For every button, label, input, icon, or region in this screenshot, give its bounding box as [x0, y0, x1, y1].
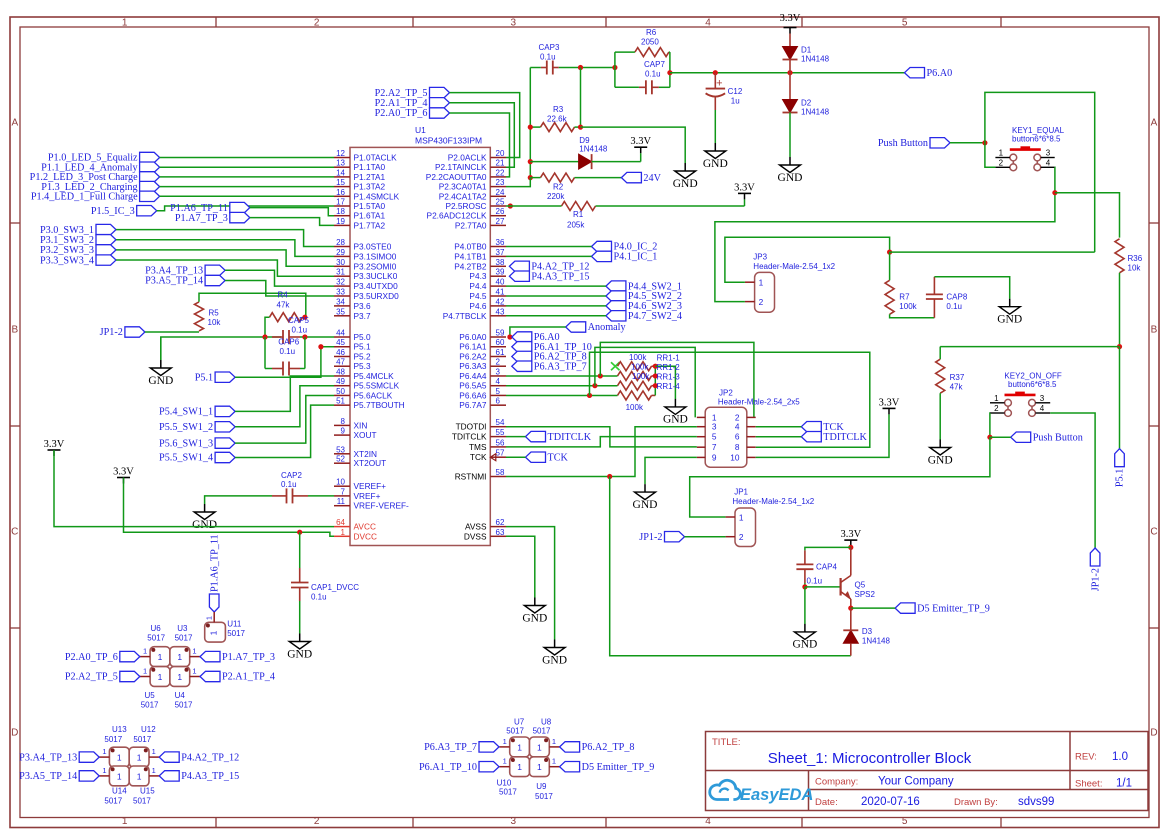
wire D3 to RSTNMI loop	[850, 643, 852, 655]
svg-text:AVSS: AVSS	[465, 522, 487, 532]
ground CAP2	[204, 504, 206, 512]
svg-text:13: 13	[336, 159, 345, 168]
svg-text:41: 41	[496, 288, 505, 297]
svg-text:4: 4	[735, 422, 740, 432]
wire AVSS to GND	[506, 527, 555, 640]
svg-text:57: 57	[496, 449, 505, 458]
wire pin5 riser to JP2.8	[590, 352, 870, 447]
net flag P3.0_SW3_1	[96, 224, 116, 234]
svg-text:3: 3	[1046, 149, 1051, 158]
svg-text:Q5: Q5	[855, 581, 866, 590]
svg-text:2020-07-16: 2020-07-16	[861, 796, 920, 808]
wire JP3.2 net	[715, 193, 1055, 302]
capacitor CAP7	[639, 86, 646, 88]
junction D1/D2	[787, 70, 792, 75]
net flag P5.5_SW1_2	[215, 422, 235, 432]
svg-text:5017: 5017	[175, 633, 193, 642]
svg-text:3.3V: 3.3V	[630, 136, 651, 147]
svg-text:P4.3: P4.3	[469, 271, 486, 281]
wire pin36	[506, 246, 592, 248]
svg-text:3.3V: 3.3V	[113, 467, 134, 478]
svg-text:GND: GND	[192, 519, 217, 531]
svg-text:VEREF+: VEREF+	[354, 481, 387, 491]
svg-text:Company:: Company:	[815, 777, 858, 788]
svg-text:P6.0A0: P6.0A0	[459, 332, 487, 342]
svg-text:P2.5ROSC: P2.5ROSC	[445, 201, 486, 211]
svg-text:P3.2SOMI0: P3.2SOMI0	[354, 261, 397, 271]
junction CAP5 right	[302, 334, 307, 339]
net flag P5.5_SW1_4	[215, 452, 235, 462]
net flag P3.A5_TP_14 (bottom)	[79, 771, 99, 781]
net flag P5.4_SW1_1	[215, 406, 235, 416]
svg-text:D5 Emitter_TP_9: D5 Emitter_TP_9	[917, 603, 990, 614]
junction KEY2.2	[987, 435, 992, 440]
svg-text:RR1-4: RR1-4	[657, 382, 681, 391]
net flag P4.0_IC_2	[592, 241, 612, 251]
wire P5.6_SW1_3 to pin 50	[235, 395, 334, 443]
svg-text:17: 17	[336, 198, 345, 207]
svg-text:28: 28	[336, 238, 345, 247]
svg-text:0.1u: 0.1u	[311, 593, 327, 602]
net flag P5.6_SW1_3	[215, 438, 235, 448]
svg-text:JP2: JP2	[719, 389, 733, 398]
svg-text:63: 63	[496, 528, 505, 537]
junction RR1 right 3	[653, 383, 658, 388]
wire R36 junction to P5.1 flag	[1119, 347, 1121, 449]
svg-text:0.1u: 0.1u	[540, 53, 556, 62]
connector JP3 Header-Male-2.54_1x2	[755, 272, 775, 312]
op-amp U1 MSP430F133IPM body	[350, 147, 490, 545]
wire P1.2_LED_3_Post Charge to pin 14	[160, 176, 334, 178]
svg-text:12: 12	[336, 149, 345, 158]
ground RR1	[674, 399, 676, 407]
svg-text:P3.A5_TP_14: P3.A5_TP_14	[145, 276, 203, 287]
svg-text:P4.4: P4.4	[469, 281, 486, 291]
wire pin4 riser to JP2.1	[595, 347, 695, 417]
wire P3.1_SW3_2 to pin 29	[116, 240, 334, 257]
svg-text:54: 54	[496, 418, 505, 427]
svg-text:P4.0TB0: P4.0TB0	[454, 242, 487, 252]
svg-text:0.1u: 0.1u	[280, 347, 296, 356]
svg-text:TITLE:: TITLE:	[712, 737, 741, 748]
svg-text:U5: U5	[145, 691, 156, 700]
svg-text:64: 64	[336, 518, 345, 527]
wire R5 top	[199, 293, 306, 317]
net flag P4.1_IC_1	[592, 251, 612, 261]
wire R7 bottom to CAP8	[890, 314, 935, 318]
wire base junction to Q5	[805, 586, 841, 588]
svg-text:CAP1_DVCC: CAP1_DVCC	[311, 583, 359, 592]
svg-text:CAP7: CAP7	[644, 60, 665, 69]
wire R1 to 3.3V	[744, 199, 746, 206]
diode D9	[579, 154, 592, 169]
wire P3.2_SW3_3 to pin 30	[116, 250, 334, 266]
svg-text:button6*6*8.5: button6*6*8.5	[1012, 135, 1061, 144]
svg-text:100k: 100k	[899, 302, 917, 311]
svg-text:D3: D3	[862, 627, 873, 636]
svg-text:1: 1	[177, 652, 182, 662]
net flag P4.A2_TP_12 (bottom)	[159, 752, 179, 762]
svg-text:5017: 5017	[104, 797, 122, 806]
svg-text:36: 36	[496, 238, 505, 247]
svg-text:33: 33	[336, 288, 345, 297]
resistor R3	[541, 123, 575, 132]
resistor R37	[939, 347, 941, 360]
svg-text:45: 45	[336, 338, 345, 347]
svg-text:TDITCLK: TDITCLK	[548, 432, 592, 443]
svg-text:CAP6: CAP6	[278, 337, 299, 346]
svg-text:5017: 5017	[506, 727, 524, 736]
svg-text:P2.2CAOUTTA0: P2.2CAOUTTA0	[426, 172, 487, 182]
svg-text:Sheet:: Sheet:	[1075, 779, 1102, 790]
svg-text:51: 51	[336, 397, 345, 406]
svg-text:1N4148: 1N4148	[862, 637, 891, 646]
wire JP2.6 to TDITCLK flag	[756, 436, 802, 438]
svg-text:U1: U1	[415, 125, 426, 135]
wire pin42	[506, 305, 606, 307]
svg-text:P5.1: P5.1	[354, 342, 371, 352]
svg-text:B: B	[1151, 325, 1158, 336]
wire P2.A0_TP_6 to pin	[450, 113, 510, 177]
svg-text:P1.4SMCLK: P1.4SMCLK	[354, 191, 400, 201]
wire P1.A6_TP_11 to pin 18	[250, 208, 334, 216]
junction D9 left	[528, 159, 533, 164]
net flag P6.A0 (pin59)	[512, 332, 532, 342]
svg-text:1: 1	[143, 647, 147, 656]
svg-text:C12: C12	[728, 87, 743, 96]
svg-text:P6.3A3: P6.3A3	[459, 361, 487, 371]
svg-text:U10: U10	[497, 779, 512, 788]
svg-text:1: 1	[177, 672, 182, 682]
svg-text:0.1u: 0.1u	[807, 577, 823, 586]
svg-text:1: 1	[152, 766, 156, 775]
junction RSTNMI	[607, 474, 612, 479]
svg-text:MSP430F133IPM: MSP430F133IPM	[415, 136, 482, 146]
svg-text:P4.7TBCLK: P4.7TBCLK	[443, 311, 487, 321]
svg-text:P5.4MCLK: P5.4MCLK	[354, 371, 395, 381]
test points U6 U3 U5 U4 (5017)	[150, 647, 170, 667]
wire C12 to GND	[714, 110, 716, 143]
svg-text:U15: U15	[140, 786, 155, 795]
wire RSTNMI down to D3 row	[610, 477, 851, 656]
connector JP2 Header-Male-2.54_2x5	[705, 407, 747, 467]
svg-text:AVCC: AVCC	[354, 522, 376, 532]
svg-text:P5.7TBOUTH: P5.7TBOUTH	[354, 400, 405, 410]
junction pin25	[508, 203, 513, 208]
svg-text:100k: 100k	[632, 372, 650, 381]
wire R3 to GND	[581, 127, 686, 163]
svg-text:27: 27	[496, 217, 505, 226]
svg-text:XT2OUT: XT2OUT	[354, 458, 387, 468]
svg-text:5: 5	[902, 816, 908, 827]
svg-text:2: 2	[739, 532, 744, 542]
wire JP1-2 to R5	[145, 331, 199, 333]
svg-text:2: 2	[314, 816, 320, 827]
net flag P4.6_SW2_3	[606, 301, 626, 311]
svg-text:P5.1: P5.1	[195, 372, 213, 383]
wire KEY2.2 down	[989, 413, 991, 437]
test point U11 (5017)	[205, 622, 226, 642]
svg-text:R6: R6	[646, 28, 657, 37]
wire pin55 stub to flag	[506, 436, 526, 438]
svg-text:P3.A5_TP_14: P3.A5_TP_14	[19, 771, 77, 782]
svg-text:24: 24	[496, 188, 505, 197]
net flag P6.A1_TP_10	[512, 342, 532, 352]
connector JP1 Header-Male-2.54_1x2	[735, 508, 756, 547]
wire R37 bottom to GND	[939, 393, 941, 439]
svg-text:5017: 5017	[535, 792, 553, 801]
net flag P1.2_LED_3_Post Charge	[140, 172, 160, 182]
svg-text:REV:: REV:	[1075, 752, 1097, 763]
svg-text:JP1-2: JP1-2	[639, 532, 662, 543]
svg-text:2: 2	[496, 358, 501, 367]
svg-text:5: 5	[712, 432, 717, 442]
svg-text:P2.A2_TP_5: P2.A2_TP_5	[65, 672, 118, 683]
svg-text:DVCC: DVCC	[354, 531, 378, 541]
svg-text:1: 1	[102, 747, 106, 756]
net flag P4.4_SW2_1	[606, 281, 626, 291]
svg-text:0.1u: 0.1u	[292, 325, 308, 334]
resistor RR1-4 zigzag	[618, 391, 652, 400]
svg-text:RR1-2: RR1-2	[657, 363, 681, 372]
svg-text:P4.1_IC_1: P4.1_IC_1	[614, 252, 658, 263]
svg-text:1: 1	[117, 753, 122, 763]
wire CAP3 row	[530, 67, 541, 69]
svg-text:5017: 5017	[147, 633, 165, 642]
svg-text:Push Button: Push Button	[878, 138, 928, 149]
svg-text:P3.7: P3.7	[354, 311, 371, 321]
test points U7 U8 U10 U9 (5017)	[510, 737, 530, 757]
svg-text:P3.1SIMO0: P3.1SIMO0	[354, 251, 397, 261]
wire Push Button to KEY1	[950, 142, 985, 144]
wire 3.3V to AVCC pin 64	[54, 450, 334, 527]
net flag P5.1	[215, 372, 235, 382]
svg-text:16: 16	[336, 188, 345, 197]
svg-text:Date:: Date:	[815, 797, 838, 808]
svg-text:5017: 5017	[227, 629, 245, 638]
svg-text:1: 1	[143, 667, 147, 676]
svg-text:U12: U12	[141, 725, 156, 734]
resistor R2	[541, 173, 575, 182]
wire CAP2 to GND	[205, 496, 272, 504]
wire P1.4_LED_1_Full Charge to pin 16	[160, 195, 334, 197]
wire CAP6 left	[265, 368, 272, 370]
capacitor CAP3	[541, 67, 547, 69]
svg-text:P6.A0: P6.A0	[927, 68, 953, 79]
svg-text:Drawn By:: Drawn By:	[954, 797, 998, 808]
net flag P1.A7_TP_3 (right)	[200, 651, 220, 661]
net flag P3.3_SW3_4	[96, 255, 116, 265]
junction KEY1.4	[1052, 190, 1057, 195]
svg-text:10: 10	[336, 478, 345, 487]
svg-text:U13: U13	[112, 725, 127, 734]
svg-text:P1.A6_TP_11: P1.A6_TP_11	[209, 534, 220, 592]
net flag P1.3_LED_2_Charging	[140, 181, 160, 191]
svg-text:43: 43	[496, 307, 505, 316]
wire D1 to junction	[789, 60, 791, 73]
svg-text:4: 4	[705, 18, 711, 29]
svg-text:24V: 24V	[643, 173, 661, 184]
svg-text:P2.A1_TP_4: P2.A1_TP_4	[222, 672, 275, 683]
svg-text:DVSS: DVSS	[464, 531, 487, 541]
junction pin4	[592, 383, 597, 388]
net flag P4.A3_TP_15 (bottom)	[159, 771, 179, 781]
svg-text:48: 48	[336, 367, 345, 376]
svg-text:P3.5URXD0: P3.5URXD0	[354, 291, 400, 301]
svg-text:CAP2: CAP2	[281, 471, 302, 480]
svg-text:GND: GND	[522, 612, 547, 624]
svg-text:U8: U8	[541, 718, 552, 727]
IC U1 pins	[334, 157, 350, 159]
svg-text:P5.4_SW1_1: P5.4_SW1_1	[159, 407, 213, 418]
wire R36 bottom	[1119, 273, 1121, 347]
svg-text:CAP3: CAP3	[539, 43, 560, 52]
svg-text:1: 1	[192, 647, 196, 656]
ground AVSS	[554, 640, 556, 648]
capacitor CAP5	[272, 336, 283, 338]
svg-text:3.3V: 3.3V	[780, 13, 801, 24]
svg-text:P5.5SMCLK: P5.5SMCLK	[354, 381, 400, 391]
svg-text:JP1: JP1	[734, 488, 748, 497]
svg-text:3: 3	[496, 367, 501, 376]
svg-text:47k: 47k	[277, 301, 291, 310]
svg-text:205k: 205k	[567, 221, 585, 230]
wire base junction to GND	[804, 587, 806, 624]
svg-text:P2.7TA0: P2.7TA0	[455, 220, 487, 230]
svg-text:P6.7A7: P6.7A7	[459, 400, 487, 410]
svg-text:1: 1	[552, 737, 556, 746]
wire P3.A4_TP_13 to pin 32	[225, 270, 334, 286]
svg-text:Header-Male-2.54_1x2: Header-Male-2.54_1x2	[732, 497, 814, 506]
junction RR1 right 2	[653, 373, 658, 378]
net flag P2.A1_TP_4 (right)	[200, 671, 220, 681]
svg-text:2050: 2050	[641, 38, 659, 47]
svg-text:4: 4	[705, 816, 711, 827]
svg-text:1: 1	[552, 757, 556, 766]
svg-text:GND: GND	[148, 375, 173, 387]
svg-text:10k: 10k	[1128, 264, 1142, 273]
ground Q5	[804, 624, 806, 632]
net flag P6.A2_TP_8 (bottom)	[560, 742, 580, 752]
resistor R36	[1115, 239, 1124, 273]
svg-text:10k: 10k	[208, 318, 222, 327]
wire box right vertical	[669, 52, 671, 87]
wire CAP8 top to GND	[934, 277, 1009, 299]
net flag P1.5_IC_3	[137, 206, 157, 216]
svg-text:1: 1	[137, 771, 142, 781]
ground CAP8	[1009, 299, 1011, 307]
svg-text:SPS2: SPS2	[855, 590, 876, 599]
svg-text:A: A	[11, 118, 18, 129]
net flag P3.A4_TP_13	[205, 265, 225, 275]
wire CAP5 to pin44	[300, 336, 334, 338]
svg-text:P3.3_SW3_4: P3.3_SW3_4	[40, 255, 94, 266]
svg-text:CAP8: CAP8	[946, 293, 967, 302]
test points U13 U12 U14 U15 (5017)	[109, 747, 129, 767]
junction CAP5 left	[262, 334, 267, 339]
svg-text:D2: D2	[801, 99, 812, 108]
svg-text:P6.A3_TP_7: P6.A3_TP_7	[424, 742, 477, 753]
svg-text:5017: 5017	[533, 727, 551, 736]
wire KEY2 junction to flag	[990, 436, 1011, 438]
svg-text:P5.6ACLK: P5.6ACLK	[354, 390, 393, 400]
svg-text:EasyEDA: EasyEDA	[740, 786, 813, 804]
svg-text:GND: GND	[703, 158, 728, 170]
svg-text:TDITCLK: TDITCLK	[452, 432, 487, 442]
wire KEY2.4 to JP1-2 flag	[1050, 413, 1095, 548]
svg-text:U6: U6	[151, 624, 162, 633]
resistor R7	[889, 252, 891, 280]
svg-text:15: 15	[336, 178, 345, 187]
net flag P3.A4_TP_13 (bottom)	[79, 752, 99, 762]
svg-text:D: D	[11, 728, 18, 739]
svg-text:3: 3	[511, 816, 517, 827]
svg-text:P4.A2_TP_12: P4.A2_TP_12	[181, 752, 239, 763]
resistor R4	[270, 313, 303, 322]
svg-text:U7: U7	[514, 718, 525, 727]
net flag P3.A5_TP_14	[205, 275, 225, 285]
wire pin57 stub to flag	[506, 456, 526, 458]
svg-text:P3.0STE0: P3.0STE0	[354, 242, 392, 252]
svg-text:22.6k: 22.6k	[547, 115, 568, 124]
svg-text:38: 38	[496, 258, 505, 267]
svg-text:P5.5_SW1_4: P5.5_SW1_4	[159, 453, 213, 464]
wire pin23 to V1	[506, 178, 530, 187]
svg-text:1: 1	[122, 816, 128, 827]
svg-text:P5.2: P5.2	[354, 351, 371, 361]
svg-text:P2.4CA1TA2: P2.4CA1TA2	[439, 191, 487, 201]
svg-text:RSTNMI: RSTNMI	[455, 472, 487, 482]
wire TMS pin56 jog to JP2.5	[506, 437, 697, 447]
svg-text:JP1-2: JP1-2	[1090, 568, 1101, 591]
svg-text:U11: U11	[227, 620, 242, 629]
wire 3.3V to DVCC pin 1	[124, 478, 335, 537]
svg-text:U14: U14	[112, 786, 127, 795]
wire V1 vertical	[529, 68, 531, 178]
svg-text:sdvs99: sdvs99	[1018, 796, 1054, 808]
svg-text:P5.6_SW1_3: P5.6_SW1_3	[159, 438, 213, 449]
wire P5.4_SW1_1 to pin 48	[235, 376, 334, 411]
svg-text:XIN: XIN	[354, 420, 368, 430]
net flag P3.2_SW3_3	[96, 245, 116, 255]
net flag P4.7_SW2_4	[606, 311, 626, 321]
wire left vertical CAP5-CAP6	[264, 337, 266, 369]
svg-text:P1.6TA1: P1.6TA1	[354, 211, 386, 221]
wire P5.5_SW1_2 to pin 49	[235, 386, 334, 427]
svg-text:+: +	[716, 78, 722, 90]
capacitor CAP6	[272, 368, 283, 370]
diode D1	[789, 34, 791, 47]
svg-text:9: 9	[341, 427, 346, 436]
wire pin5 row	[506, 394, 618, 396]
svg-text:P4.6: P4.6	[469, 301, 486, 311]
resistor RR1-2 zigzag	[618, 371, 652, 380]
capacitor CAP1_DVCC	[299, 532, 301, 568]
transistor Q5 SPS2	[839, 578, 841, 596]
junction Q5 base	[802, 584, 807, 589]
svg-text:GND: GND	[778, 172, 803, 184]
svg-text:P6.1A1: P6.1A1	[459, 342, 487, 352]
svg-text:TDITCLK: TDITCLK	[823, 432, 867, 443]
wire P5.5_SW1_4 to pin 51	[235, 405, 334, 457]
svg-text:3.3V: 3.3V	[44, 439, 65, 450]
wire JP2.9 to GND	[645, 457, 697, 484]
svg-text:5017: 5017	[133, 797, 151, 806]
net flag P2.A0_TP_6	[430, 108, 450, 118]
svg-text:P4.1TB1: P4.1TB1	[454, 251, 487, 261]
wire JP3.1 net	[725, 237, 890, 282]
svg-text:P2.3CA0TA1: P2.3CA0TA1	[439, 182, 487, 192]
